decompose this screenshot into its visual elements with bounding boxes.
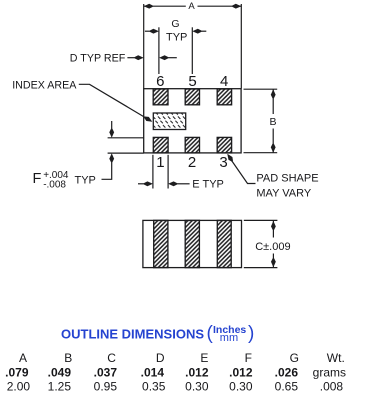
svg-text:G: G	[290, 351, 299, 365]
svg-text:D: D	[156, 351, 165, 365]
svg-text:0.30: 0.30	[229, 379, 253, 393]
dimension E extension lines	[153, 155, 168, 189]
dimension A line and arrows	[144, 4, 242, 9]
svg-text:grams: grams	[313, 365, 346, 379]
svg-text:OUTLINE DIMENSIONS: OUTLINE DIMENSIONS	[61, 327, 204, 342]
svg-text:PAD SHAPE: PAD SHAPE	[256, 172, 318, 184]
pad shape note label	[256, 172, 318, 199]
dimension F label	[33, 170, 96, 191]
pad shape note leader	[225, 152, 255, 183]
svg-text:.049: .049	[48, 365, 72, 379]
svg-text:0.30: 0.30	[185, 379, 209, 393]
svg-text:E: E	[200, 351, 208, 365]
svg-text:3: 3	[219, 154, 227, 171]
svg-text:A: A	[188, 1, 195, 12]
svg-text:.026: .026	[275, 365, 299, 379]
svg-text:C: C	[107, 351, 116, 365]
dimension C extension lines	[244, 220, 278, 267]
dimension E arrows	[138, 181, 190, 186]
svg-text:0.65: 0.65	[275, 379, 299, 393]
side view terminal 1	[154, 220, 168, 267]
dimension C label	[255, 241, 290, 253]
svg-text:MAY VARY: MAY VARY	[256, 187, 311, 199]
pad 4	[217, 89, 231, 105]
svg-text:E TYP: E TYP	[192, 178, 224, 190]
pin 6 label	[156, 73, 164, 90]
svg-text:-.008: -.008	[43, 180, 66, 191]
svg-text:D TYP REF: D TYP REF	[70, 52, 126, 64]
svg-text:F: F	[33, 171, 42, 187]
pad 1	[153, 137, 168, 153]
pin 1 label	[156, 154, 164, 171]
dimension C line and arrows	[271, 220, 276, 267]
svg-text:5: 5	[188, 73, 196, 90]
svg-text:1.25: 1.25	[48, 379, 72, 393]
dimension B line and arrows	[271, 89, 276, 153]
side view terminal 2	[185, 220, 199, 267]
svg-text:.079: .079	[5, 365, 29, 379]
dimension F upper arrow	[109, 121, 114, 138]
dimension B extension lines	[244, 89, 278, 153]
svg-text:6: 6	[156, 73, 164, 90]
table mm row	[7, 379, 344, 393]
dimension G label	[166, 18, 187, 44]
pin 4 label	[220, 73, 228, 90]
svg-text:.012: .012	[185, 365, 209, 379]
side view terminal 3	[217, 220, 231, 267]
pad 2	[185, 137, 199, 153]
dimension A label	[188, 1, 195, 12]
index area	[153, 113, 185, 130]
dimension D arrows	[127, 55, 176, 60]
svg-text:): )	[248, 323, 254, 344]
dimension G arrows	[145, 29, 206, 34]
index area label	[12, 80, 77, 92]
svg-text:.014: .014	[141, 365, 165, 379]
svg-text:Wt.: Wt.	[327, 351, 345, 365]
pin 5 label	[188, 73, 196, 90]
index area leader	[79, 84, 154, 123]
svg-text:TYP: TYP	[75, 175, 96, 187]
pad 5	[185, 89, 199, 105]
svg-text:INDEX AREA: INDEX AREA	[12, 80, 77, 92]
svg-text:mm: mm	[220, 332, 238, 344]
svg-text:0.95: 0.95	[94, 379, 118, 393]
svg-text:B: B	[269, 116, 276, 128]
svg-text:F: F	[245, 351, 252, 365]
svg-text:2.00: 2.00	[7, 379, 31, 393]
package body outline (side view)	[143, 220, 242, 267]
pin 3 label	[219, 154, 227, 171]
svg-text:G: G	[171, 18, 179, 30]
dimension G extension lines	[159, 27, 192, 74]
svg-text:0.35: 0.35	[142, 379, 166, 393]
svg-text:C±.009: C±.009	[255, 241, 290, 253]
table inches row	[5, 365, 346, 379]
svg-text:A: A	[19, 351, 27, 365]
svg-text:.037: .037	[94, 365, 118, 379]
dimension F extension lines	[108, 138, 144, 153]
dimension A extension lines	[144, 4, 242, 89]
pin 2 label	[188, 154, 196, 171]
dimension E label	[192, 178, 224, 190]
svg-text:.008: .008	[320, 379, 344, 393]
svg-text:2: 2	[188, 154, 196, 171]
svg-text:.012: .012	[229, 365, 253, 379]
dimension D label	[70, 52, 126, 64]
package body outline (top view)	[144, 89, 241, 153]
svg-text:4: 4	[220, 73, 228, 90]
pad 3	[217, 137, 231, 153]
dimension B label	[269, 116, 276, 128]
table header row	[19, 351, 345, 365]
table title	[61, 323, 254, 344]
svg-text:B: B	[64, 351, 72, 365]
svg-text:1: 1	[156, 154, 164, 171]
dimension F lower arrow and leader	[102, 153, 115, 179]
svg-text:TYP: TYP	[166, 32, 187, 44]
pad 6	[153, 89, 168, 105]
